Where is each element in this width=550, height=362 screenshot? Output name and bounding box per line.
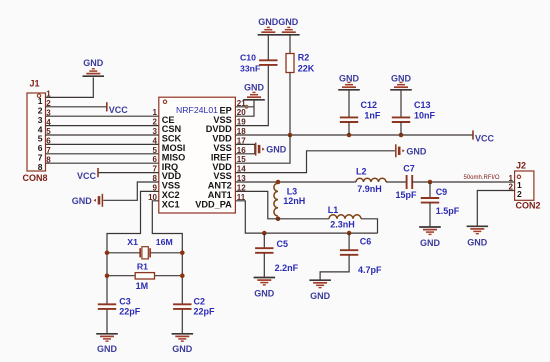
svg-text:J2: J2 [516,160,526,170]
svg-text:L1: L1 [328,205,339,215]
svg-text:2: 2 [153,118,158,127]
svg-text:R1: R1 [137,262,148,272]
svg-text:J1: J1 [30,79,40,89]
svg-text:2.2nF: 2.2nF [275,263,299,273]
svg-text:4: 4 [153,136,158,145]
svg-text:GND: GND [406,146,427,156]
svg-text:C6: C6 [360,237,372,247]
svg-text:2: 2 [517,189,522,199]
svg-text:XC1: XC1 [162,199,180,209]
svg-text:L3: L3 [287,187,298,197]
svg-text:C3: C3 [119,296,131,306]
svg-text:GND: GND [254,289,275,299]
svg-text:15pF: 15pF [395,190,417,200]
svg-text:1nF: 1nF [364,111,381,121]
svg-text:GND: GND [339,73,360,83]
svg-text:C7: C7 [403,164,415,174]
svg-text:C10: C10 [240,52,256,62]
svg-text:VCC: VCC [475,133,495,143]
svg-text:GND: GND [266,145,287,155]
svg-text:5: 5 [153,146,158,155]
svg-text:GND: GND [172,344,193,354]
svg-text:NRF24L01: NRF24L01 [176,105,218,115]
svg-text:50omh.RFI/O: 50omh.RFI/O [464,175,500,181]
svg-text:22pF: 22pF [194,306,216,316]
svg-text:7.9nH: 7.9nH [357,184,382,194]
svg-text:GND: GND [97,344,118,354]
svg-text:CON8: CON8 [23,173,48,183]
svg-text:L2: L2 [356,167,367,177]
svg-text:1: 1 [153,108,158,117]
svg-text:12nH: 12nH [283,196,305,206]
svg-text:6: 6 [153,155,158,164]
svg-text:1M: 1M [136,281,149,291]
svg-text:VCC: VCC [77,171,97,181]
svg-text:33nF: 33nF [240,63,260,73]
svg-text:22pF: 22pF [119,306,141,316]
svg-text:GND: GND [258,17,279,27]
svg-text:GND: GND [278,17,299,27]
svg-text:C12: C12 [361,100,378,110]
svg-text:GND: GND [467,237,488,247]
svg-text:1.5pF: 1.5pF [436,206,460,216]
svg-text:22K: 22K [298,63,315,73]
svg-text:GND: GND [420,238,441,248]
svg-text:10nF: 10nF [414,111,436,121]
svg-text:X1: X1 [127,237,138,247]
svg-text:16M: 16M [156,237,173,247]
svg-text:C2: C2 [194,296,206,306]
svg-text:3: 3 [153,127,158,136]
svg-text:4.7pF: 4.7pF [358,265,382,275]
svg-text:GND: GND [72,196,93,206]
svg-text:R2: R2 [298,52,310,62]
svg-text:2.3nH: 2.3nH [330,219,355,229]
svg-text:GND: GND [244,82,265,92]
svg-text:C9: C9 [436,187,448,197]
svg-text:GND: GND [83,58,104,68]
svg-text:VCC: VCC [109,105,129,115]
svg-text:GND: GND [391,73,412,83]
svg-text:CON2: CON2 [516,200,541,210]
svg-text:C13: C13 [414,100,431,110]
svg-text:C5: C5 [277,239,289,249]
svg-text:VDD_PA: VDD_PA [195,199,232,209]
svg-text:GND: GND [310,291,331,301]
svg-text:8: 8 [38,162,43,172]
